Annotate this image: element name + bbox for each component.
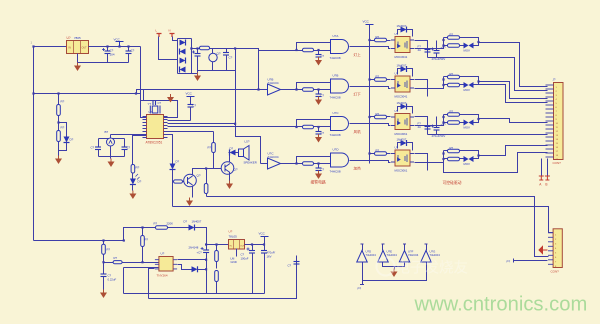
svg-text:VCC: VCC — [363, 20, 370, 24]
capacitor C10 X2 — [101, 261, 117, 289]
svg-text:LS?: LS? — [245, 140, 250, 144]
svg-text:R?: R? — [61, 126, 65, 130]
buffer U3E 74HC04 — [378, 251, 389, 263]
wire opto 2 to connector b — [479, 85, 548, 103]
AND gate U1B 74HC08 — [330, 74, 349, 100]
resistor R12 sense — [215, 243, 219, 268]
wire gate 3 input feed from U2 — [168, 126, 297, 128]
TVS diode bidirectional 2 — [460, 82, 474, 92]
wire opto 2 out bottom — [415, 77, 445, 89]
wire loop mid — [168, 227, 189, 229]
wire snubber 1 loop — [460, 38, 479, 46]
diode D protect 1 — [397, 24, 413, 37]
AND gate U1C 74HC08 — [330, 111, 349, 137]
wire oscillator loop — [141, 47, 178, 118]
wire Q2 collector — [229, 153, 230, 163]
svg-text:D?: D? — [138, 180, 142, 184]
svg-text:+C?: +C? — [197, 250, 203, 254]
wire regulator output — [89, 46, 141, 48]
diode D6 bridge — [180, 58, 186, 64]
ground below buffers — [391, 267, 398, 278]
resistor R snub top 3 — [444, 110, 460, 117]
diode D3 driver — [170, 160, 180, 170]
svg-text:Q?: Q? — [197, 174, 201, 178]
svg-text:74HC08: 74HC08 — [330, 170, 341, 174]
wire bridge-to-inverter tie vertical — [257, 51, 259, 91]
MCU U2 AT89C2051 — [143, 110, 168, 145]
wire SMPS ground rail outer — [149, 256, 297, 299]
buffer U3D 74HC04 — [357, 251, 368, 263]
wire Q1 frame — [172, 182, 174, 207]
capacitor C filter gate 4 — [316, 162, 325, 171]
wire diode to Q1 base — [172, 170, 174, 182]
wire loop to node — [195, 228, 207, 245]
wire MCU to driver diode — [168, 135, 173, 164]
connector CON1 — [546, 78, 564, 166]
diode D protect 2 — [397, 64, 413, 77]
resistor R input gate 4 — [297, 162, 331, 166]
svg-text:IN: IN — [69, 47, 72, 50]
wire gate 2 output — [350, 87, 391, 89]
wire gate 1 output — [350, 47, 391, 49]
ground below bridge block — [194, 71, 201, 82]
wire left rail vertical — [33, 47, 35, 241]
svg-text:U?: U? — [161, 252, 165, 256]
terminal A mark — [539, 176, 544, 187]
capacitor C11 bulk — [189, 245, 210, 294]
wire gate 3 output — [350, 124, 391, 126]
svg-text:R?: R? — [450, 33, 454, 37]
wire CON1 to terminal A — [541, 159, 543, 177]
svg-text:74HC04: 74HC04 — [408, 253, 419, 257]
wire AC input to regulator — [31, 41, 67, 48]
svg-text:1N4007: 1N4007 — [397, 64, 407, 68]
svg-text:U?: U? — [395, 32, 399, 36]
svg-text:74HC04: 74HC04 — [430, 253, 441, 257]
svg-text:U?C: U?C — [333, 111, 340, 115]
svg-text:MOC3061: MOC3061 — [395, 169, 408, 173]
resistor R snub top 2 — [444, 72, 460, 79]
svg-text:7805: 7805 — [74, 36, 81, 40]
wire buffers 1 4 join — [363, 263, 427, 281]
wire opto 3 out top — [415, 117, 428, 135]
LED D1 — [130, 173, 142, 185]
wire U5 output — [245, 244, 265, 246]
svg-text:D?: D? — [70, 138, 74, 142]
wire mic circuit top — [99, 135, 143, 139]
capacitor C12 out — [241, 243, 256, 293]
svg-text:N: N — [169, 29, 171, 33]
resistor R2 divider top — [57, 92, 65, 115]
wire gate 1 input branch — [295, 43, 330, 52]
wire snubber 4 loop — [460, 151, 479, 159]
resistor R input gate 3 — [297, 125, 331, 129]
wire opto 1 to connector a — [477, 41, 547, 87]
svg-text:J?: J? — [553, 78, 556, 82]
svg-text:MOV: MOV — [464, 126, 471, 130]
svg-text:R?: R? — [208, 146, 212, 150]
svg-text:MOC3041: MOC3041 — [395, 55, 408, 59]
optocoupler U5 MOC3041 — [391, 32, 414, 59]
svg-text:R?: R? — [450, 146, 454, 150]
wire bridge right rail — [178, 39, 192, 74]
svg-text:78L05: 78L05 — [229, 235, 238, 239]
wire mains to SMPS — [34, 240, 124, 242]
resistor R13 lower — [215, 271, 219, 294]
ground below gate 2 input — [315, 97, 322, 106]
svg-text:R?: R? — [114, 256, 118, 260]
wire LED to ground — [132, 185, 134, 191]
resistor R11 feed — [141, 226, 149, 262]
svg-text:D?: D? — [176, 160, 180, 164]
transistor Q3 regulator pass — [209, 49, 221, 71]
diode D protect 4 — [397, 138, 413, 151]
wire opto 1 out top — [415, 41, 428, 58]
capacitor C6 bridge filter — [192, 47, 201, 70]
wire regulator ground net — [78, 54, 129, 63]
svg-text:C?: C? — [131, 49, 135, 53]
wire R9 to line1 — [103, 255, 105, 263]
green watermark www.cntronics.com — [414, 294, 588, 316]
svg-text:U?: U? — [149, 110, 153, 114]
zener D8 — [230, 147, 236, 156]
wire U4 pin to outer rail — [149, 269, 155, 299]
svg-text:VCC: VCC — [114, 38, 121, 42]
capacitor C1 — [102, 45, 115, 62]
svg-text:MOV: MOV — [464, 162, 471, 166]
ground below gate 1 input — [315, 57, 322, 66]
diode D10 bias — [178, 265, 208, 273]
wire inverter U3C output — [281, 163, 297, 165]
svg-text:74HC08: 74HC08 — [330, 96, 341, 100]
loudspeaker LS1 — [236, 140, 257, 165]
svg-text:R?: R? — [145, 238, 149, 242]
svg-text:AT89C2051: AT89C2051 — [146, 141, 163, 145]
ground above oscillator — [167, 94, 174, 103]
resistor R8 pullup — [208, 132, 216, 169]
svg-text:Y?: Y? — [148, 102, 152, 106]
wire gate 2 input branch — [295, 83, 330, 91]
buffer U3G 74HC04 — [421, 251, 432, 263]
svg-text:1N4007: 1N4007 — [192, 220, 202, 224]
svg-text:MOC3061: MOC3061 — [395, 132, 408, 136]
svg-text:加热: 加热 — [354, 166, 362, 171]
terminal B mark — [545, 176, 550, 187]
label Chinese gate 2 — [354, 92, 362, 97]
ground below LED — [129, 191, 136, 200]
svg-text:D?: D? — [230, 147, 234, 151]
buffer U3E 74HC04 pin — [382, 244, 398, 257]
svg-text:OUT: OUT — [82, 47, 88, 50]
svg-text:R?: R? — [376, 75, 380, 79]
resistor R10 startup — [154, 222, 174, 230]
wire AC line to bridge — [159, 37, 178, 60]
diode D5 bridge — [180, 49, 186, 55]
svg-text:74HC08: 74HC08 — [330, 56, 341, 60]
svg-text:74HC04: 74HC04 — [387, 253, 398, 257]
svg-text:R?: R? — [450, 72, 454, 76]
svg-text:74HC04: 74HC04 — [268, 155, 279, 159]
wire Q2 base — [207, 168, 222, 170]
ground below gate 3 input — [315, 134, 322, 143]
resistor R snub top 1 — [444, 33, 460, 40]
svg-text:R?: R? — [154, 222, 158, 226]
capacitor C13 out — [261, 243, 275, 293]
wire bridge out to gates — [236, 49, 259, 51]
svg-text:U?D: U?D — [333, 148, 340, 152]
voltage regulator U1 7805 — [67, 36, 89, 54]
wire SMPS mid rail — [205, 243, 229, 245]
svg-text:U?B: U?B — [333, 74, 339, 78]
svg-text:1N4007: 1N4007 — [397, 138, 407, 142]
svg-text:R?: R? — [376, 35, 380, 39]
svg-text:P?: P? — [358, 287, 362, 291]
wire gate 4 input branch — [295, 157, 330, 165]
transistor Q1 — [184, 174, 201, 187]
resistor R limit 4 — [368, 149, 390, 156]
wire CON1 to terminal B — [547, 159, 549, 177]
wire opto 4 to connector b — [444, 153, 548, 173]
ground below C10 — [100, 290, 107, 299]
wire divider feed — [32, 92, 140, 94]
svg-text:CON?: CON? — [553, 161, 562, 165]
optocoupler U8 MOC3061 — [391, 146, 414, 173]
wire opto 3 to connector b — [428, 134, 548, 136]
resistor R snub bottom 1 — [442, 44, 459, 48]
wire bus A to CON2 — [207, 197, 549, 257]
AND gate U1D 74HC08 — [330, 148, 349, 174]
wire bridge left rail — [177, 39, 179, 74]
wire inverter U3B input — [137, 90, 268, 94]
svg-text:C?: C? — [229, 56, 233, 60]
buffer U3F 74HC04 pin — [403, 244, 419, 257]
capacitor C snub 1 — [418, 45, 431, 53]
svg-text:U?: U? — [395, 72, 399, 76]
svg-text:U?: U? — [67, 36, 71, 40]
ground below gate 4 input — [315, 171, 322, 180]
capacitor C filter gate 1 — [316, 49, 325, 58]
inverter U3B 74HC04 — [268, 78, 281, 96]
inverter U3C 74HC04 — [268, 152, 281, 170]
svg-text:Q?: Q? — [234, 168, 238, 172]
svg-text:www.cntronics.com: www.cntronics.com — [414, 294, 588, 316]
resistor R snub bottom 3 — [442, 121, 459, 125]
wire frame left vertical — [124, 268, 159, 294]
wire opto 1 out bottom — [415, 38, 445, 49]
buffer U3G 74HC04 pin — [425, 244, 441, 257]
svg-text:CON?: CON? — [551, 270, 560, 274]
diode D9 clamp — [184, 220, 202, 231]
svg-text:GND: GND — [231, 260, 237, 264]
wire inverter U3B output — [281, 89, 297, 91]
wire VCC rail vertical — [369, 25, 371, 164]
svg-text:P?: P? — [507, 260, 511, 264]
svg-text:MOV: MOV — [464, 49, 471, 53]
power flag VCC at MCU — [186, 92, 195, 102]
terminal J2 AC neutral — [169, 29, 175, 38]
svg-text:D?: D? — [184, 220, 188, 224]
pin P2 wire to CON2 — [507, 259, 548, 264]
capacitor C filter gate 2 — [316, 88, 325, 97]
wire buffers 2 3 join — [383, 263, 405, 267]
svg-text:风机: 风机 — [354, 129, 362, 134]
TVS diode bidirectional 3 — [460, 120, 474, 130]
svg-text:16V: 16V — [267, 254, 272, 258]
svg-text:C?: C? — [321, 168, 325, 172]
wire mic circuit bottom — [99, 147, 125, 157]
diode D protect 3 — [397, 101, 413, 114]
ground below regulator — [74, 63, 81, 72]
label block triac drive — [443, 180, 462, 185]
wire SMPS top loop — [123, 228, 156, 242]
svg-text:B: B — [545, 183, 547, 187]
terminal J1 AC line — [156, 29, 162, 38]
power flag VCC SMPS out — [259, 232, 269, 245]
svg-text:U?A: U?A — [333, 34, 339, 38]
ground below Q1 — [186, 198, 193, 207]
svg-text:C?: C? — [321, 131, 325, 135]
wire Q1 collector — [193, 169, 207, 176]
svg-text:74HC08: 74HC08 — [330, 133, 341, 137]
AND gate U1A 74HC08 — [330, 34, 349, 60]
resistor R limit 3 — [368, 112, 390, 119]
wire opto 4 to connector a — [477, 146, 547, 157]
label Chinese gate 3 — [354, 129, 362, 134]
wire bus B to CON2 — [173, 207, 554, 233]
capacitor C8 osc — [153, 101, 162, 105]
wire snubber 3 loop — [460, 115, 479, 123]
svg-text:R?: R? — [376, 112, 380, 116]
resistor R6 base — [174, 180, 185, 183]
wire snubber 2 loop — [460, 77, 479, 85]
wire opto 1 to connector b — [428, 58, 548, 91]
svg-text:74HC04: 74HC04 — [366, 253, 377, 257]
power flag VCC at regulator output — [114, 38, 124, 48]
switcher IC U4 TNY264 — [155, 252, 177, 278]
arrow marker at CON2 — [539, 247, 548, 254]
wire opto 2 to connector a — [477, 80, 547, 98]
resistor R9 input — [102, 239, 111, 254]
wire U4 drain — [178, 259, 208, 261]
resistor R limit 2 — [368, 75, 390, 82]
svg-text:R?: R? — [107, 248, 111, 252]
svg-text:R?: R? — [136, 166, 140, 170]
svg-text:可控硅驱动: 可控硅驱动 — [443, 180, 462, 185]
svg-text:100uF: 100uF — [241, 256, 249, 260]
resistor R snub bottom 2 — [442, 83, 459, 87]
ground below Q2 — [226, 181, 233, 190]
resistor R snub bottom 4 — [442, 157, 459, 161]
label Chinese gate 1 — [354, 52, 362, 57]
resistor R limit 1 — [368, 35, 390, 42]
capacitor C9 MCU decouple — [188, 97, 197, 121]
wire opto 3 to connector a — [477, 118, 547, 123]
ground below divider — [55, 156, 62, 165]
crystal Y1 — [148, 102, 161, 114]
svg-text:2N4148: 2N4148 — [189, 246, 199, 250]
wire LED branch — [133, 136, 147, 165]
faint site watermark — [377, 258, 469, 277]
wire Q2 emitter to ground — [229, 173, 231, 181]
wire MCU to R8 line — [168, 131, 214, 133]
wire Q1 emitter to ground — [192, 186, 194, 198]
wire gate 3 input branch — [295, 120, 330, 129]
capacitor C7 bridge out — [223, 49, 233, 71]
resistor R7 to bus — [204, 167, 208, 196]
label Chinese gate 4 — [354, 166, 362, 171]
capacitor C snub 3 — [418, 122, 431, 130]
wire opto 3 out bottom — [415, 115, 445, 126]
wire AC neutral to bridge — [173, 37, 178, 41]
capacitor C5 right leg — [122, 139, 131, 157]
svg-text:0.22uF: 0.22uF — [108, 278, 117, 282]
pin P1 buffer net — [358, 281, 365, 291]
capacitor C filter big 3 — [428, 117, 447, 139]
svg-text:R?: R? — [450, 110, 454, 114]
svg-text:MOV: MOV — [464, 88, 471, 92]
wire inverter U3C input — [261, 163, 268, 165]
wire bridge sync vertical — [236, 71, 261, 164]
wire opto 2 out top — [415, 80, 428, 97]
svg-text:C?: C? — [288, 264, 292, 268]
svg-text:电子发烧友: 电子发烧友 — [396, 260, 469, 277]
wire line1 to U4 — [104, 256, 159, 264]
ground below mic circuit — [108, 157, 115, 168]
power flag VCC opto rail — [363, 20, 374, 30]
svg-text:104: 104 — [110, 53, 115, 57]
svg-text:220K: 220K — [167, 222, 174, 226]
diode D2 on tap — [59, 137, 74, 151]
svg-text:灯下: 灯下 — [354, 92, 362, 97]
wire opto 4 out bottom — [415, 151, 445, 163]
svg-text:C?: C? — [193, 104, 197, 108]
wire divider to ground — [58, 142, 60, 156]
wire opto 4 out top — [415, 154, 428, 171]
svg-text:C?: C? — [321, 54, 325, 58]
buffer U3F 74HC04 — [399, 251, 410, 263]
svg-text:C?: C? — [127, 146, 131, 150]
svg-text:VCC: VCC — [259, 232, 266, 236]
svg-text:TNY264: TNY264 — [157, 274, 168, 278]
svg-text:报警电路: 报警电路 — [311, 180, 326, 185]
resistor R snub top 4 — [444, 146, 460, 153]
svg-text:灯上: 灯上 — [354, 52, 362, 57]
capacitor C filter gate 3 — [316, 126, 325, 135]
wire U5 ground pin — [231, 249, 237, 265]
wire MCU P1 to VCC cap — [168, 120, 191, 122]
connector CON2 — [548, 229, 562, 274]
svg-text:MOC3041: MOC3041 — [395, 95, 408, 99]
wire gate 4 output — [350, 161, 391, 163]
svg-text:U?: U? — [395, 109, 399, 113]
wire divider tap — [57, 121, 66, 136]
svg-text:74HC04: 74HC04 — [268, 81, 279, 85]
optocoupler U7 MOC3061 — [391, 109, 414, 136]
resistor R input gate 1 — [297, 48, 331, 52]
TVS diode bidirectional 1 — [460, 43, 474, 53]
svg-text:OUT: OUT — [240, 245, 245, 247]
svg-text:VCC: VCC — [186, 92, 193, 96]
TVS diode bidirectional 4 — [460, 156, 474, 166]
capacitor C2 — [126, 45, 135, 62]
svg-text:U?: U? — [229, 230, 233, 234]
diode D7 bridge — [180, 67, 186, 73]
wire MCU zero-cross sense — [168, 123, 237, 125]
diode D4 bridge — [180, 40, 186, 46]
label block alarm circuit — [311, 180, 326, 185]
wire bridge bottom rail — [184, 47, 237, 73]
microphone B1 — [105, 130, 115, 146]
